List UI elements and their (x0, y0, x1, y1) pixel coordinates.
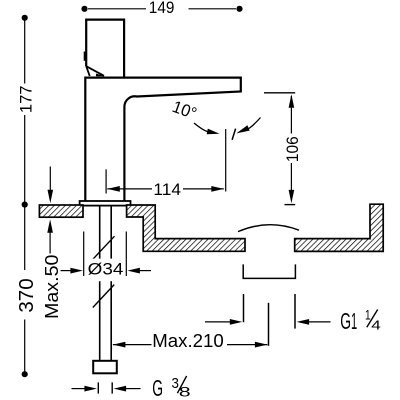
svg-text:149: 149 (149, 0, 175, 17)
handle lever wedge left side (86, 66, 90, 76)
svg-text:114: 114 (153, 180, 181, 199)
dimension O34 arrows (61, 270, 73, 272)
aerator tilted tick (232, 129, 236, 140)
handle lever wedge hypotenuse (86, 66, 104, 76)
dimension 114 extension lines (105, 169, 107, 193)
dimension 177 line (24, 18, 26, 84)
svg-text:Ø34: Ø34 (88, 261, 124, 279)
svg-text:106: 106 (283, 136, 302, 162)
pop-up waste dome arc (238, 225, 299, 232)
pipe break slash upper (93, 236, 115, 259)
svg-text:1: 1 (365, 307, 371, 323)
counter right section with sink step (hatched) (127, 205, 245, 251)
handle lever tab (84, 52, 87, 61)
counter left slab (hatched) (39, 205, 83, 217)
dimension G1 1/4 arrows (205, 321, 232, 323)
drain axis line (268, 303, 270, 346)
dimension Max.210 arrows (113, 344, 152, 346)
dimension G 3/8 ticks (97, 382, 99, 393)
dimension 114 arrows (107, 188, 152, 190)
sink bowl right piece with wall (hatched) (295, 204, 384, 251)
drain U bracket (243, 264, 295, 278)
dimension O34 text (86, 259, 126, 282)
supply pipe right line (110, 206, 112, 361)
svg-text:177: 177 (17, 86, 36, 114)
supply pipe left line (99, 206, 101, 361)
dimension G 3/8 arrows (72, 388, 86, 390)
drain extension line left (243, 294, 245, 322)
faucet base flange (80, 201, 131, 206)
svg-text:G: G (152, 375, 163, 400)
svg-text:370: 370 (15, 278, 38, 312)
pipe break slash lower (93, 285, 114, 308)
svg-text:3: 3 (172, 375, 179, 392)
svg-text:4: 4 (371, 318, 381, 333)
svg-text:Max.210: Max.210 (152, 331, 224, 351)
svg-text:1: 1 (351, 308, 357, 334)
dimension Max.50 arrow (49, 230, 51, 254)
angle right arc arrow (248, 118, 261, 130)
dimension 370 line (24, 205, 26, 270)
faucet handle (86, 20, 124, 77)
supply connector block (93, 361, 117, 374)
svg-text:G: G (340, 308, 351, 334)
dimension 149 line (88, 8, 146, 10)
drain extension line right (294, 294, 296, 329)
faucet body and spout outline (85, 78, 241, 201)
angle left arc arrow (194, 123, 209, 132)
svg-text:8: 8 (179, 384, 191, 400)
dimension Max.50 upper arrow (points down at counter top) (49, 167, 51, 192)
handle lever wedge dark tip (96, 74, 105, 77)
dimension 106 ticks (264, 92, 295, 94)
svg-text:Max.50: Max.50 (42, 255, 62, 320)
dimension O34 extension lines (83, 232, 85, 277)
dimension 106 line and arrows (290, 96, 292, 134)
